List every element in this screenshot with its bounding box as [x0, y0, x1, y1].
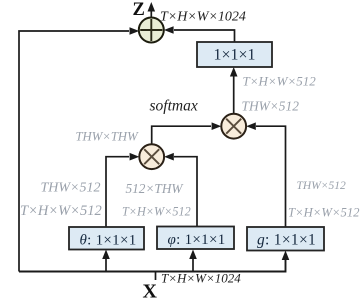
wire conv 1x1x1 output to plus circle — [174, 30, 235, 42]
arrowhead into theta box bottom — [102, 250, 110, 260]
svg-text:THW×THW: THW×THW — [76, 130, 140, 144]
wire residual left: bottom bus up left side into plus circle — [19, 31, 129, 272]
svg-text:THW×512: THW×512 — [297, 180, 347, 192]
arrowhead into conv box bottom — [230, 67, 238, 77]
svg-text:θ: 1×1×1: θ: 1×1×1 — [79, 233, 136, 249]
wire branch into phi box — [192, 256, 194, 272]
arrowhead into matmul1 left — [130, 153, 140, 161]
svg-text:X: X — [143, 281, 158, 303]
matmul circle 1 (theta x phi) — [139, 144, 164, 169]
svg-text:1×1×1: 1×1×1 — [213, 47, 255, 64]
svg-text:T×H×W×512: T×H×W×512 — [20, 203, 102, 219]
arrowhead into matmul2 left — [212, 122, 222, 130]
svg-text:THW×512: THW×512 — [242, 99, 300, 114]
arrowhead into plus right — [164, 26, 174, 34]
conv box theta — [69, 227, 144, 250]
adder circle (element-wise sum) — [139, 18, 164, 43]
wire X stem — [155, 272, 157, 281]
arrowhead into matmul2 right — [246, 122, 256, 130]
wire branch into theta box — [105, 256, 107, 272]
wire bottom bus from X — [19, 257, 286, 272]
matmul circle 2 (attention x g) — [221, 114, 246, 139]
svg-text:T×H×W×1024: T×H×W×1024 — [161, 271, 241, 286]
wire matmul1 output to matmul2 — [152, 126, 211, 144]
wire g output to matmul2 — [256, 126, 286, 227]
svg-text:512×THW: 512×THW — [126, 181, 185, 196]
svg-text:T×H×W×512: T×H×W×512 — [243, 74, 317, 89]
conv box 1x1x1 (top) — [197, 42, 272, 67]
conv box g — [247, 227, 324, 251]
svg-text:T×H×W×512: T×H×W×512 — [288, 206, 360, 220]
svg-text:softmax: softmax — [150, 98, 198, 115]
wire matmul2 output up into conv 1x1x1 box — [233, 72, 235, 114]
wire phi output to matmul1 — [174, 157, 197, 226]
svg-text:φ: 1×1×1: φ: 1×1×1 — [167, 232, 225, 248]
arrowhead into matmul1 right — [164, 153, 174, 161]
svg-text:Z: Z — [133, 0, 145, 20]
arrowhead into phi box bottom — [189, 250, 197, 260]
arrowhead into g box bottom — [282, 251, 290, 261]
svg-text:T×H×W×512: T×H×W×512 — [122, 205, 191, 219]
wire theta output to matmul1 — [106, 157, 129, 227]
svg-text:T×H×W×1024: T×H×W×1024 — [160, 10, 246, 25]
wire output Z: plus circle up — [150, 7, 152, 18]
conv box phi — [157, 227, 234, 250]
svg-text:THW×512: THW×512 — [41, 181, 101, 196]
arrowhead up to Z — [148, 2, 156, 12]
arrowhead into plus left — [130, 27, 140, 35]
svg-text:g: 1×1×1: g: 1×1×1 — [257, 232, 316, 249]
